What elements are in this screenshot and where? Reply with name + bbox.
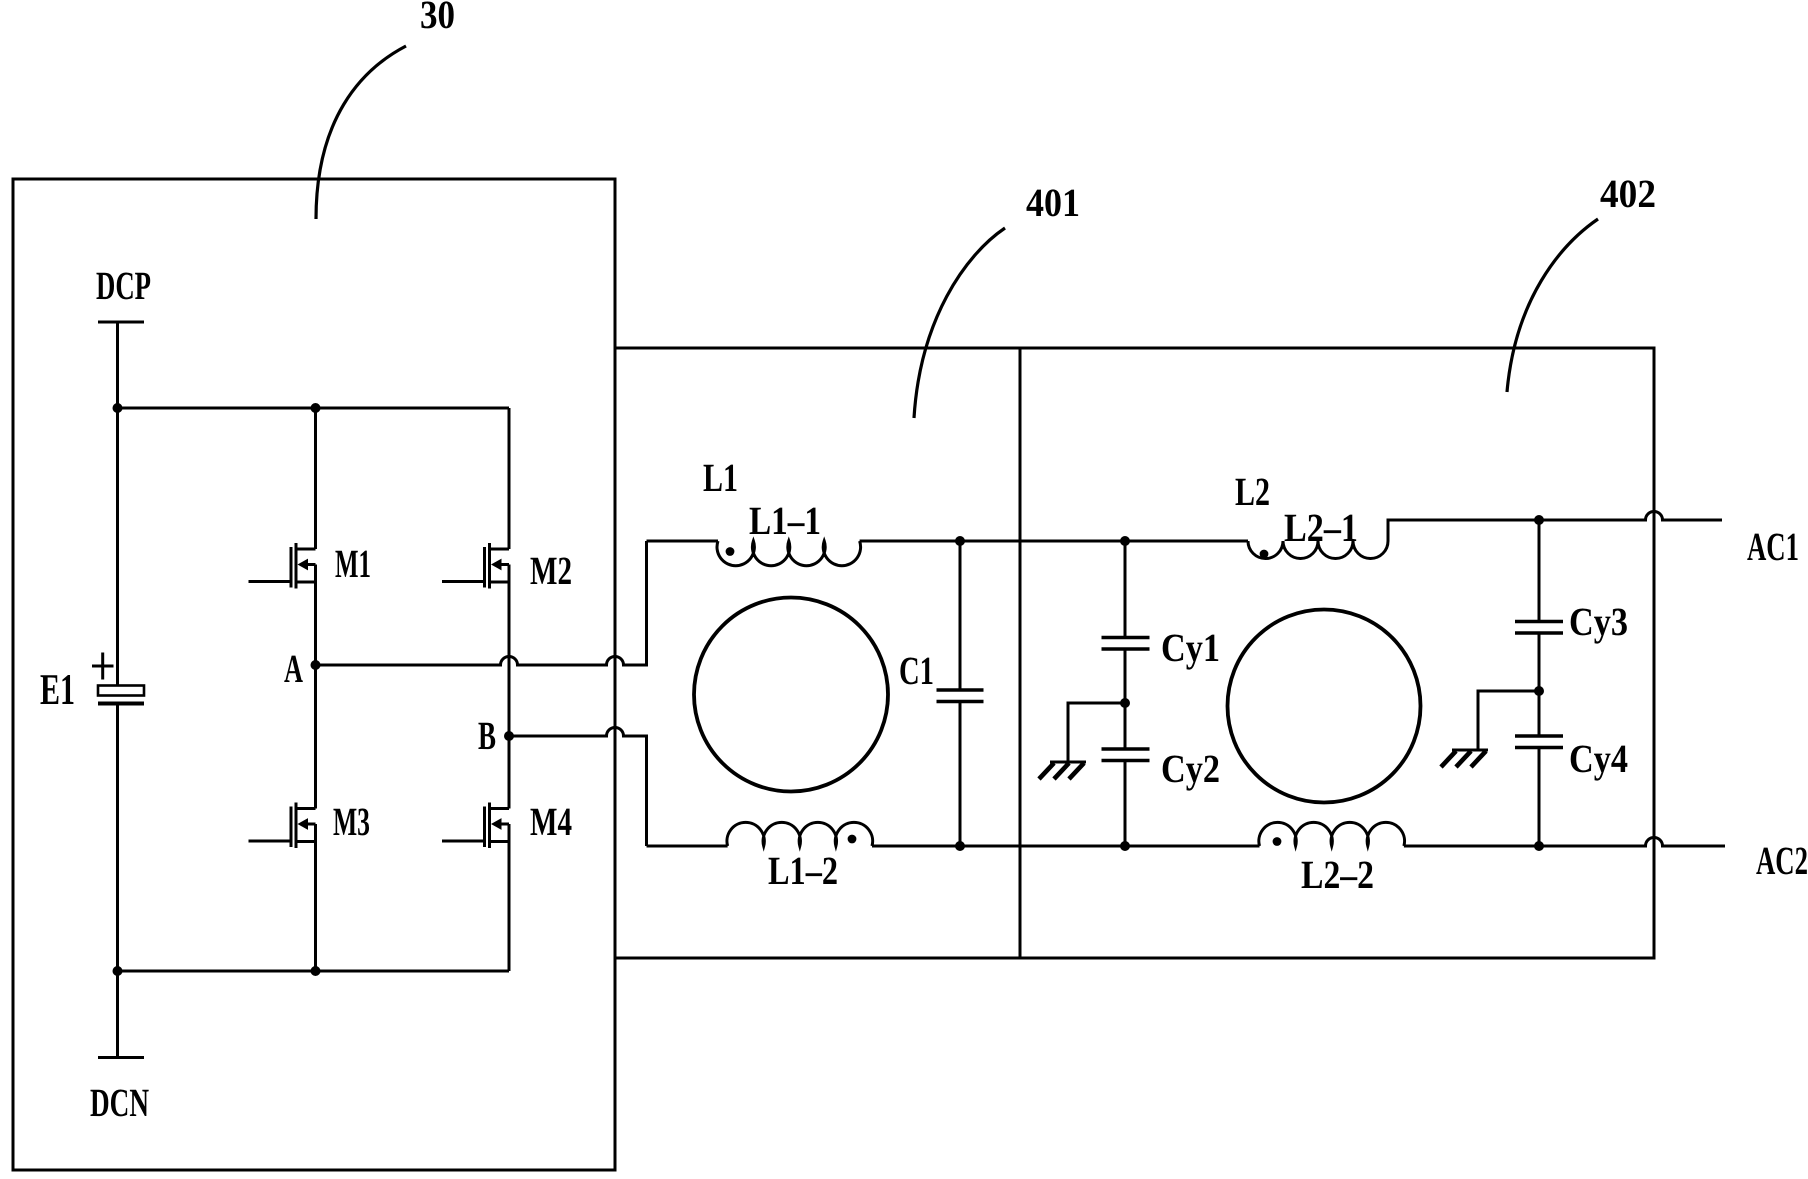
svg-text:30: 30 bbox=[420, 0, 455, 37]
svg-text:401: 401 bbox=[1026, 180, 1080, 225]
svg-text:Cy3: Cy3 bbox=[1569, 599, 1628, 644]
svg-text:L2: L2 bbox=[1235, 469, 1270, 514]
svg-text:M4: M4 bbox=[530, 799, 572, 844]
svg-text:M1: M1 bbox=[335, 541, 371, 586]
svg-text:AC2: AC2 bbox=[1756, 838, 1808, 883]
svg-text:M3: M3 bbox=[333, 799, 370, 844]
svg-text:402: 402 bbox=[1600, 171, 1656, 216]
svg-text:L1–1: L1–1 bbox=[749, 498, 821, 543]
svg-text:AC1: AC1 bbox=[1747, 524, 1799, 569]
svg-text:L1–2: L1–2 bbox=[768, 848, 838, 893]
svg-text:Cy1: Cy1 bbox=[1161, 625, 1220, 670]
svg-text:Cy4: Cy4 bbox=[1569, 736, 1628, 781]
svg-text:C1: C1 bbox=[899, 648, 934, 693]
svg-text:DCN: DCN bbox=[90, 1080, 149, 1125]
svg-text:L2–1: L2–1 bbox=[1284, 505, 1358, 550]
svg-text:L2–2: L2–2 bbox=[1301, 852, 1374, 897]
svg-text:L1: L1 bbox=[703, 455, 738, 500]
svg-text:E1: E1 bbox=[40, 665, 75, 714]
svg-text:A: A bbox=[284, 646, 303, 691]
svg-text:B: B bbox=[478, 713, 496, 758]
svg-text:M2: M2 bbox=[530, 548, 572, 593]
svg-text:Cy2: Cy2 bbox=[1161, 746, 1220, 791]
svg-text:DCP: DCP bbox=[96, 263, 151, 308]
